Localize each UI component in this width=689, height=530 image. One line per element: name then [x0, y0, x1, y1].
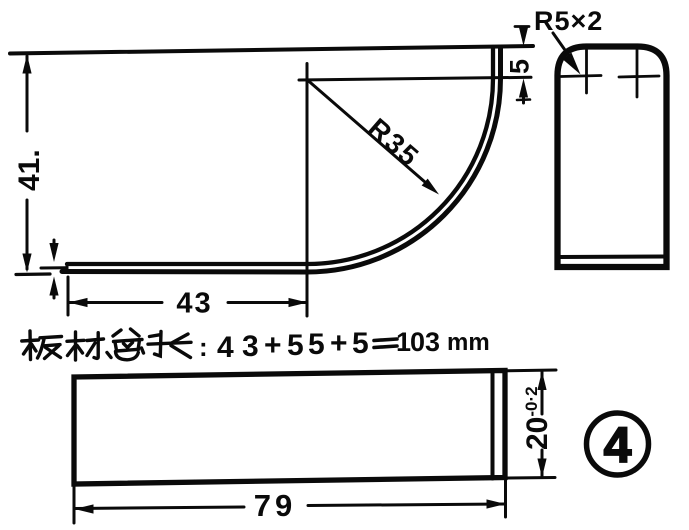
part number circle 4 — [587, 413, 649, 475]
bend line double (right of blank) — [491, 372, 495, 479]
svg-text:41.: 41. — [13, 149, 46, 191]
svg-text::: : — [199, 332, 208, 362]
extension right top — [507, 369, 556, 373]
extension below left — [73, 486, 76, 523]
svg-text:3: 3 — [425, 327, 440, 357]
extension right bottom — [507, 476, 555, 480]
svg-text:79: 79 — [254, 488, 296, 523]
svg-text:0: 0 — [410, 327, 425, 357]
dimension 20-0.2 — [541, 372, 544, 414]
short mid extension line — [41, 266, 65, 269]
svg-text:5: 5 — [308, 328, 325, 361]
svg-text:5: 5 — [352, 327, 369, 360]
label: formula text — [199, 327, 490, 364]
svg-text:20-0·2: 20-0·2 — [521, 386, 554, 450]
arc center horizontal line — [299, 77, 531, 80]
svg-text:+: + — [264, 329, 282, 362]
sheet thickness arrows — [53, 240, 56, 250]
dimension 79 — [75, 507, 244, 509]
dimension 41 line — [26, 56, 29, 131]
char ban (board) — [22, 331, 62, 360]
svg-text:R5×2: R5×2 — [534, 6, 603, 36]
extension below right — [504, 480, 507, 517]
label: plate total length (Chinese, drawn strokes) — [22, 329, 191, 360]
svg-text:5: 5 — [287, 329, 304, 362]
char chang (length) — [148, 332, 191, 358]
front view bottom bend line — [560, 255, 664, 260]
svg-text:4: 4 — [604, 417, 632, 473]
svg-text:1: 1 — [396, 327, 411, 357]
top edge extension line — [10, 46, 533, 54]
part outer surface (side view profile) — [62, 47, 501, 272]
svg-text:+: + — [330, 327, 348, 360]
char zong (total) — [107, 329, 144, 360]
R5x2 leader — [553, 33, 572, 60]
svg-text:4: 4 — [217, 331, 234, 364]
extension line bottom left — [16, 272, 50, 276]
part inner surface (side view profile) — [67, 47, 493, 264]
char cai (material) — [67, 332, 104, 360]
svg-text:3: 3 — [242, 330, 259, 363]
arc center vertical line — [306, 64, 309, 317]
dimension 5 (side view) — [515, 25, 529, 28]
equals sign of formula — [374, 339, 397, 341]
right corner center mark — [619, 76, 659, 77]
front view outline (rounded blank) — [558, 47, 667, 268]
flat blank rectangle (bottom view) — [74, 371, 505, 485]
dimension 43 — [67, 277, 70, 315]
svg-text:R35: R35 — [362, 112, 426, 173]
svg-text:mm: mm — [447, 329, 490, 356]
svg-text:43: 43 — [176, 288, 212, 320]
left corner center mark — [561, 76, 601, 77]
radius R35 leader line — [308, 81, 433, 190]
svg-text:5: 5 — [505, 59, 535, 74]
sheet left end cap — [66, 264, 69, 271]
